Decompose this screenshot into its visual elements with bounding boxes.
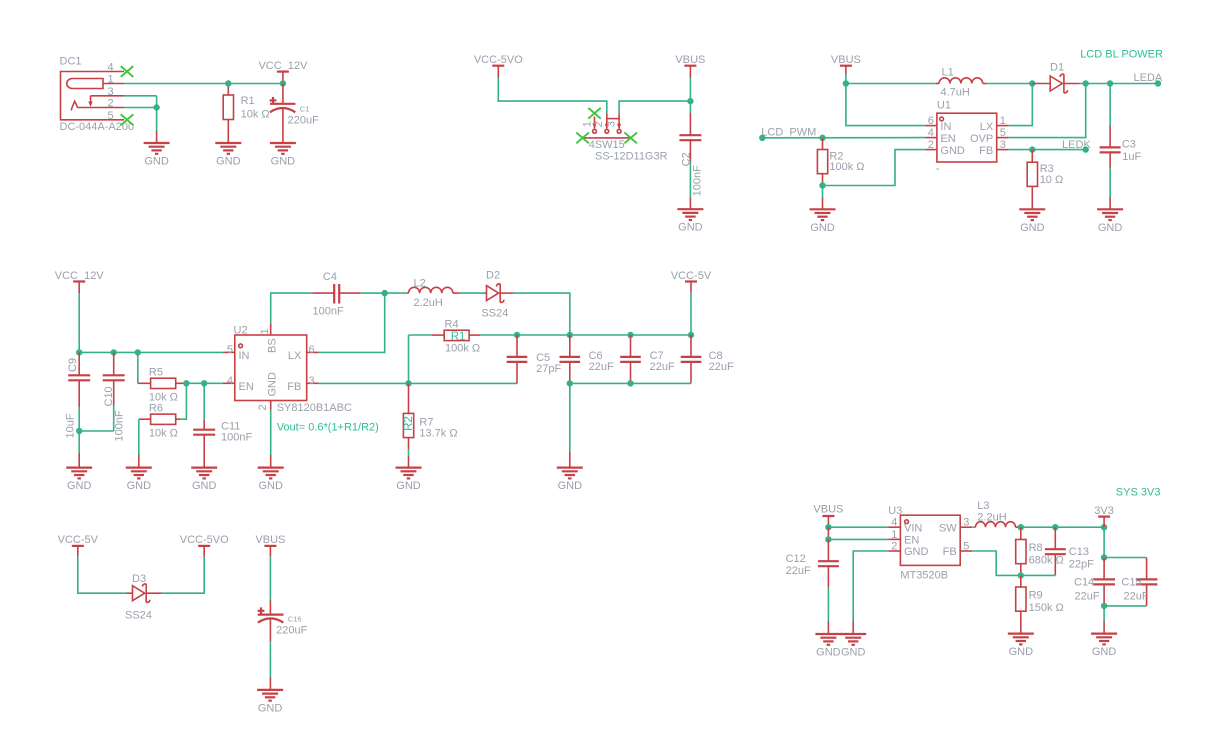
capacitor C12: [786, 539, 839, 634]
supply 3V3: [1094, 505, 1114, 527]
ground C12: [815, 634, 841, 659]
svg-text:680k Ω: 680k Ω: [1029, 554, 1064, 566]
svg-text:220uF: 220uF: [276, 625, 307, 637]
svg-text:27pF: 27pF: [536, 363, 561, 375]
supply VCC-5V mid: [671, 270, 712, 335]
svg-text:EN: EN: [940, 133, 955, 145]
wire pin2 to ground: [124, 108, 157, 144]
svg-text:C4: C4: [323, 271, 337, 283]
svg-text:5: 5: [963, 541, 969, 553]
junction VIN node: [825, 524, 831, 530]
wire pin1 to VCC_12V: [124, 83, 283, 85]
svg-text:1: 1: [1000, 115, 1006, 127]
svg-text:GND: GND: [558, 480, 583, 492]
svg-text:3: 3: [309, 375, 315, 387]
svg-text:GND: GND: [678, 222, 703, 234]
svg-text:FB: FB: [943, 546, 957, 558]
ground C11: [191, 468, 217, 493]
svg-text:R2: R2: [403, 416, 415, 431]
junction pin2 node: [153, 104, 159, 110]
wire C15 bottom to C14 bottom: [1104, 605, 1147, 607]
svg-text:100k Ω: 100k Ω: [829, 161, 864, 173]
capacitor C10: [103, 352, 126, 441]
net label LEDK: [1062, 139, 1091, 153]
svg-text:150k Ω: 150k Ω: [1029, 602, 1064, 614]
svg-text:GND: GND: [1009, 646, 1034, 658]
ground R9: [1008, 634, 1034, 659]
wire L2 to D2: [460, 292, 485, 294]
ground C2: [677, 209, 703, 234]
junction R2 top: [819, 135, 825, 141]
svg-text:3: 3: [963, 517, 969, 529]
capacitor C16 polarized: [258, 601, 308, 690]
wire R5 drop: [137, 352, 139, 383]
wire R4 branch: [408, 335, 410, 383]
wire VBUS to EN: [828, 527, 888, 539]
wire LX to node: [319, 293, 385, 352]
resistor R8: [1016, 527, 1064, 575]
supply VBUS U1: [831, 54, 861, 83]
no-connect X pin 5: [121, 114, 134, 125]
wire R2 bottom to GND pin: [823, 150, 925, 186]
svg-text:22pF: 22pF: [1069, 559, 1094, 571]
svg-text:VIN: VIN: [904, 522, 922, 534]
wire FB rail: [319, 382, 518, 384]
svg-text:1: 1: [259, 328, 271, 334]
svg-text:100nF: 100nF: [221, 432, 252, 444]
junction C1 top: [280, 80, 286, 86]
svg-text:EN: EN: [239, 381, 254, 393]
svg-text:GND: GND: [396, 480, 421, 492]
wire output rail: [409, 334, 433, 336]
capacitor C11: [193, 383, 252, 467]
no-connect X switch pin4: [576, 133, 589, 144]
wire SW output rail: [1021, 526, 1104, 528]
IC U1: [925, 100, 1009, 176]
ground U2: [258, 468, 284, 493]
IC U3 MT3520B: [888, 505, 972, 581]
no-connect X switch pin5: [624, 133, 637, 144]
resistor R7: [403, 383, 458, 467]
diode D3: [125, 573, 162, 621]
svg-text:100nF: 100nF: [114, 410, 126, 441]
capacitor C15: [1121, 577, 1157, 606]
svg-text:VCC-5VO: VCC-5VO: [180, 534, 229, 546]
svg-text:4: 4: [928, 127, 934, 139]
svg-text:2: 2: [891, 541, 897, 553]
junction R5 drop: [135, 349, 141, 355]
junction R8 top: [1018, 524, 1024, 530]
svg-text:1: 1: [581, 121, 593, 127]
wire caps to ground: [569, 383, 571, 467]
svg-text:GND: GND: [127, 480, 152, 492]
net label LEDA: [1134, 72, 1163, 87]
junction VBUS C2: [687, 98, 693, 104]
ground C16: [257, 690, 283, 715]
wire R2 to ground: [822, 186, 824, 210]
junction R1 top: [225, 80, 231, 86]
svg-text:SS24: SS24: [481, 308, 508, 320]
svg-text:GND: GND: [271, 156, 296, 168]
wire FB node: [972, 551, 1055, 575]
svg-text:22uF: 22uF: [786, 565, 811, 577]
svg-text:C10: C10: [103, 386, 115, 406]
svg-text:L1: L1: [942, 66, 954, 78]
svg-text:C12: C12: [786, 553, 806, 565]
svg-text:3: 3: [606, 121, 618, 127]
svg-text:LX: LX: [288, 350, 302, 362]
no-connect X pin 4: [121, 66, 134, 77]
capacitor C6: [560, 335, 614, 383]
supply VCC_12V mid: [55, 270, 105, 352]
wire 3V3 down: [1103, 527, 1105, 557]
inductor L2: [407, 278, 460, 309]
wire C4 to junction: [361, 292, 407, 294]
supply VBUS bottom: [255, 534, 285, 601]
junction C3 top node: [1107, 80, 1113, 86]
ground R1: [215, 143, 241, 168]
svg-text:IN: IN: [239, 350, 250, 362]
svg-text:D1: D1: [1050, 62, 1064, 74]
wire R6 to ground: [138, 419, 140, 467]
svg-text:5: 5: [1000, 127, 1006, 139]
svg-text:GND: GND: [258, 702, 283, 714]
supply VBUS top-mid: [675, 54, 705, 101]
capacitor C5: [507, 335, 562, 383]
svg-text:EN: EN: [904, 535, 919, 547]
ground R7: [396, 468, 422, 493]
svg-text:GND: GND: [810, 222, 835, 234]
junction R5 R6: [183, 380, 189, 386]
capacitor C4: [313, 271, 361, 317]
svg-text:10k Ω: 10k Ω: [241, 109, 270, 121]
svg-text:4SW15: 4SW15: [589, 139, 625, 151]
svg-text:FB: FB: [287, 381, 301, 393]
ground R3: [1019, 209, 1045, 234]
svg-text:SY8120B1ABC: SY8120B1ABC: [277, 402, 352, 414]
wire EN rail: [186, 382, 222, 384]
diode D1: [1032, 62, 1079, 93]
svg-text:22uF: 22uF: [1124, 590, 1149, 602]
svg-text:2.2uH: 2.2uH: [977, 511, 1006, 523]
svg-text:GND: GND: [267, 372, 279, 397]
wire FB to LEDK: [1009, 149, 1086, 151]
svg-text:L3: L3: [977, 500, 989, 512]
svg-text:220uF: 220uF: [288, 114, 319, 126]
diode D2: [481, 270, 513, 320]
capacitor C2: [679, 101, 703, 209]
svg-text:4.7uH: 4.7uH: [941, 87, 970, 99]
svg-text:GND: GND: [67, 480, 92, 492]
svg-text:5: 5: [227, 344, 233, 356]
svg-text:2: 2: [257, 404, 269, 410]
svg-text:GND: GND: [940, 145, 965, 157]
ground caps: [557, 468, 583, 493]
capacitor C8: [681, 335, 734, 383]
svg-text:DC1: DC1: [60, 56, 82, 68]
svg-text:GND: GND: [1092, 646, 1117, 658]
svg-text:4: 4: [227, 375, 233, 387]
svg-text:VCC-5V: VCC-5V: [58, 534, 99, 546]
svg-text:LCD_PWM: LCD_PWM: [761, 126, 816, 138]
supply VCC-5VO bottom: [180, 534, 229, 557]
svg-text:10uF: 10uF: [65, 413, 77, 438]
svg-text:GND: GND: [816, 647, 841, 659]
svg-text:FB: FB: [979, 145, 993, 157]
resistor R9: [1016, 575, 1064, 633]
ground R2: [810, 209, 836, 234]
svg-text:VCC-5VO: VCC-5VO: [474, 54, 523, 66]
junction C7 bottom: [627, 380, 633, 386]
svg-text:SW: SW: [939, 522, 957, 534]
resistor R3: [1027, 150, 1063, 210]
wire to C15 top: [1104, 558, 1147, 580]
svg-text:100k Ω: 100k Ω: [445, 343, 480, 355]
capacitor C7: [620, 335, 675, 383]
svg-text:U1: U1: [937, 100, 951, 112]
svg-text:GND: GND: [258, 480, 283, 492]
svg-text:GND: GND: [841, 647, 866, 659]
junction C5 top: [514, 332, 520, 338]
connector DC1: [60, 56, 135, 134]
junction FB R7: [405, 380, 411, 386]
ground U3: [840, 634, 866, 659]
svg-text:C3: C3: [1122, 139, 1136, 151]
svg-text:6: 6: [928, 115, 934, 127]
svg-text:4: 4: [891, 517, 897, 529]
capacitor C1 polarized: [270, 84, 319, 144]
junction C9 bottom: [76, 428, 82, 434]
ground C1: [270, 143, 296, 168]
svg-text:D2: D2: [486, 270, 500, 282]
junction D1 OVP node: [1083, 80, 1089, 86]
junction VBUS node: [843, 80, 849, 86]
svg-text:LX: LX: [980, 121, 994, 133]
svg-text:BS: BS: [267, 338, 279, 353]
wire D2 to output node: [513, 293, 570, 335]
resistor R6: [139, 383, 187, 439]
resistor R5: [149, 366, 187, 403]
svg-text:2: 2: [108, 98, 114, 110]
wire LX to L1-D1 node: [1009, 84, 1033, 126]
wire VBUS to L1: [846, 83, 936, 85]
svg-text:R6: R6: [149, 402, 163, 414]
svg-text:22uF: 22uF: [1075, 590, 1100, 602]
svg-text:R9: R9: [1029, 589, 1043, 601]
svg-text:22uF: 22uF: [650, 361, 675, 373]
svg-text:C15: C15: [1121, 577, 1141, 589]
ground C14: [1091, 634, 1117, 659]
svg-text:GND: GND: [1098, 222, 1123, 234]
junction EN node: [825, 536, 831, 542]
svg-text:4: 4: [108, 62, 114, 74]
wire VCC-5V to D3: [78, 557, 127, 594]
svg-text:R1: R1: [451, 331, 466, 343]
svg-text:IN: IN: [940, 121, 951, 133]
svg-text:10 Ω: 10 Ω: [1040, 174, 1064, 186]
junction L1 D1 node: [1029, 80, 1035, 86]
wire switch to VBUS junction: [619, 101, 690, 113]
svg-text:SYS 3V3: SYS 3V3: [1116, 487, 1161, 499]
svg-text:C14: C14: [1074, 577, 1094, 589]
supply VCC-5VO top: [474, 54, 523, 78]
junction C9 top: [76, 349, 82, 355]
svg-text:100nF: 100nF: [313, 306, 344, 318]
svg-text:GND: GND: [144, 156, 169, 168]
svg-text:R4: R4: [445, 318, 459, 330]
capacitor C13: [1045, 527, 1094, 575]
supply VBUS U3: [813, 504, 843, 528]
wire C9 C10 bottoms: [79, 430, 114, 432]
svg-text:C9: C9: [67, 358, 79, 372]
junction BS LX node: [382, 290, 388, 296]
capacitor C9: [65, 352, 91, 438]
svg-text:VBUS: VBUS: [675, 54, 705, 66]
svg-text:C13: C13: [1069, 546, 1089, 558]
svg-text:C16: C16: [288, 615, 302, 624]
wire U2 pin2 to ground: [270, 413, 272, 468]
svg-text:GND: GND: [904, 546, 929, 558]
svg-text:GND: GND: [192, 480, 217, 492]
svg-text:3: 3: [1000, 139, 1006, 151]
junction C14 C15 top: [1101, 554, 1107, 560]
svg-text:22uF: 22uF: [589, 361, 614, 373]
svg-text:3: 3: [108, 86, 114, 98]
junction C6 top: [567, 332, 573, 338]
svg-text:C1: C1: [300, 104, 310, 113]
svg-text:10k Ω: 10k Ω: [149, 427, 178, 439]
net label LCD_PWM: [759, 126, 816, 141]
svg-text:U2: U2: [234, 325, 248, 337]
junction C10 top: [111, 349, 117, 355]
wire VBUS down to IN: [846, 84, 925, 126]
svg-text:1: 1: [108, 74, 114, 86]
wire VBUS to VIN: [828, 526, 888, 528]
supply VCC_12V: [258, 60, 308, 84]
svg-text:VBUS: VBUS: [813, 504, 843, 516]
junction C6 bottom: [567, 380, 573, 386]
junction 3V3 node: [1101, 524, 1107, 530]
svg-text:VCC_12V: VCC_12V: [55, 270, 105, 282]
svg-text:C2: C2: [681, 152, 693, 166]
wire D1 to LEDA: [1080, 83, 1158, 85]
wire cap ground rail: [570, 382, 691, 384]
junction C14 bottom: [1101, 603, 1107, 609]
wire VCC-5VO to switch: [498, 78, 607, 113]
svg-text:U3: U3: [888, 505, 902, 517]
junction C8 top: [688, 332, 694, 338]
svg-text:R5: R5: [149, 366, 163, 378]
ground C3: [1097, 209, 1123, 234]
junction C13 top: [1052, 524, 1058, 530]
junction R3 top: [1029, 146, 1035, 152]
wire C9 to ground: [78, 431, 80, 468]
ground R6: [126, 468, 152, 493]
wire pin3: [124, 96, 157, 108]
capacitor C3: [1100, 84, 1142, 210]
wire BS up: [271, 293, 313, 323]
svg-text:2: 2: [593, 121, 605, 127]
svg-text:OVP: OVP: [970, 133, 993, 145]
svg-text:2.2uH: 2.2uH: [414, 297, 443, 309]
wire D3 to VCC-5VO: [162, 557, 204, 594]
svg-text:VBUS: VBUS: [831, 54, 861, 66]
inductor L3: [972, 500, 1021, 527]
switch SW1: [581, 113, 667, 162]
svg-text:2: 2: [928, 139, 934, 151]
svg-text:6: 6: [309, 344, 315, 356]
supply VCC-5V bottom: [58, 534, 99, 557]
wire LCD_PWM to EN: [762, 137, 925, 139]
svg-text:R1: R1: [241, 95, 255, 107]
svg-text:SS-12D11G3R: SS-12D11G3R: [595, 150, 668, 162]
svg-text:GND: GND: [216, 156, 241, 168]
resistor R1: [223, 84, 269, 144]
svg-text:Vout= 0.6*(1+R1/R2): Vout= 0.6*(1+R1/R2): [277, 422, 379, 434]
wire OVP to D1 cathode: [1009, 84, 1086, 138]
svg-text:13.7k Ω: 13.7k Ω: [419, 427, 457, 439]
svg-text:1uF: 1uF: [1122, 151, 1141, 163]
junction FB R8 R9: [1018, 572, 1024, 578]
junction C11 top: [201, 380, 207, 386]
svg-text:3V3: 3V3: [1094, 505, 1114, 517]
svg-text:22uF: 22uF: [709, 361, 734, 373]
wire L1 to D1: [987, 83, 1033, 85]
svg-text:GND: GND: [1020, 222, 1045, 234]
svg-text:1: 1: [891, 529, 897, 541]
capacitor C14: [1074, 558, 1115, 606]
resistor R4: [432, 318, 480, 354]
svg-text:LCD BL POWER: LCD BL POWER: [1080, 49, 1163, 61]
junction R2 bottom: [819, 182, 825, 188]
inductor L1: [936, 66, 987, 98]
svg-text:SS24: SS24: [125, 609, 152, 621]
svg-text:VBUS: VBUS: [255, 534, 285, 546]
svg-text:-: -: [936, 163, 940, 175]
junction C7 top: [627, 332, 633, 338]
IC U2 SY8120B1ABC: [223, 323, 352, 413]
no-connect X switch pin1: [588, 108, 601, 119]
svg-text:100nF: 100nF: [692, 165, 704, 196]
wire C14 to ground: [1103, 606, 1105, 634]
ground C9: [66, 468, 92, 493]
resistor R2: [817, 138, 864, 186]
ground DC1: [144, 143, 170, 168]
svg-text:VCC_12V: VCC_12V: [258, 60, 308, 72]
wire VIN rail: [79, 351, 223, 353]
svg-text:VCC-5V: VCC-5V: [671, 270, 712, 282]
svg-text:MT3520B: MT3520B: [900, 569, 948, 581]
wire GND pin to ground: [853, 551, 888, 634]
svg-text:R8: R8: [1029, 542, 1043, 554]
